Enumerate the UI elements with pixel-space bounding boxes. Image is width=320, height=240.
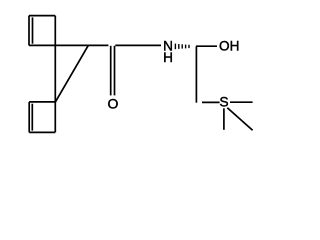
shared vertical bond: ring1 right edge + spiro bond + ring2 right edge	[54, 16, 56, 133]
hashed wedge tick 3	[181, 44, 183, 48]
hashed wedge tick 5	[188, 45, 190, 48]
bond S to methyl (down)	[223, 108, 225, 130]
svg-text:O: O	[108, 96, 119, 112]
svg-text:H: H	[163, 50, 173, 65]
cyclobutene ring 2 double bond inner line	[31, 104, 33, 131]
svg-text:OH: OH	[219, 39, 239, 54]
hashed wedge tick 4	[185, 45, 187, 49]
cyclobutene ring 1 left edge double bond C1=C4 outer line	[28, 16, 30, 46]
cyclobutene ring 2 bottom edge bond	[29, 131, 55, 133]
main chain horizontal bond: carbonyl carbon to amide N	[115, 44, 161, 46]
cyclobutene ring 2 (bottom) top edge bond	[29, 101, 55, 103]
cyclobutene ring 1 (top) top edge bond C1-C2	[29, 15, 55, 17]
cyclobutene ring 2 left edge double bond outer line	[28, 102, 30, 132]
stereo hashed wedge bond N to chiral C: tick 1	[174, 44, 176, 50]
carbonyl C=O double bond line 2	[114, 46, 116, 96]
bond CH2 to S	[202, 101, 220, 103]
carbonyl C=O double bond line 1	[110, 46, 112, 96]
hashed wedge tick 2	[178, 44, 180, 49]
bond chiral C to hydroxyl O	[196, 45, 217, 47]
bond chiral C to CH2 (vertical)	[195, 46, 197, 102]
bond S to methyl (right)	[230, 101, 253, 103]
bond S to methyl (diagonal)	[227, 108, 252, 131]
cyclopropane diagonal bond	[55, 46, 88, 102]
main chain horizontal bond: ring1 bottom edge to carbonyl carbon	[29, 44, 108, 46]
svg-text:S: S	[219, 94, 228, 109]
cyclobutene ring 1 double bond inner line	[32, 17, 34, 43]
